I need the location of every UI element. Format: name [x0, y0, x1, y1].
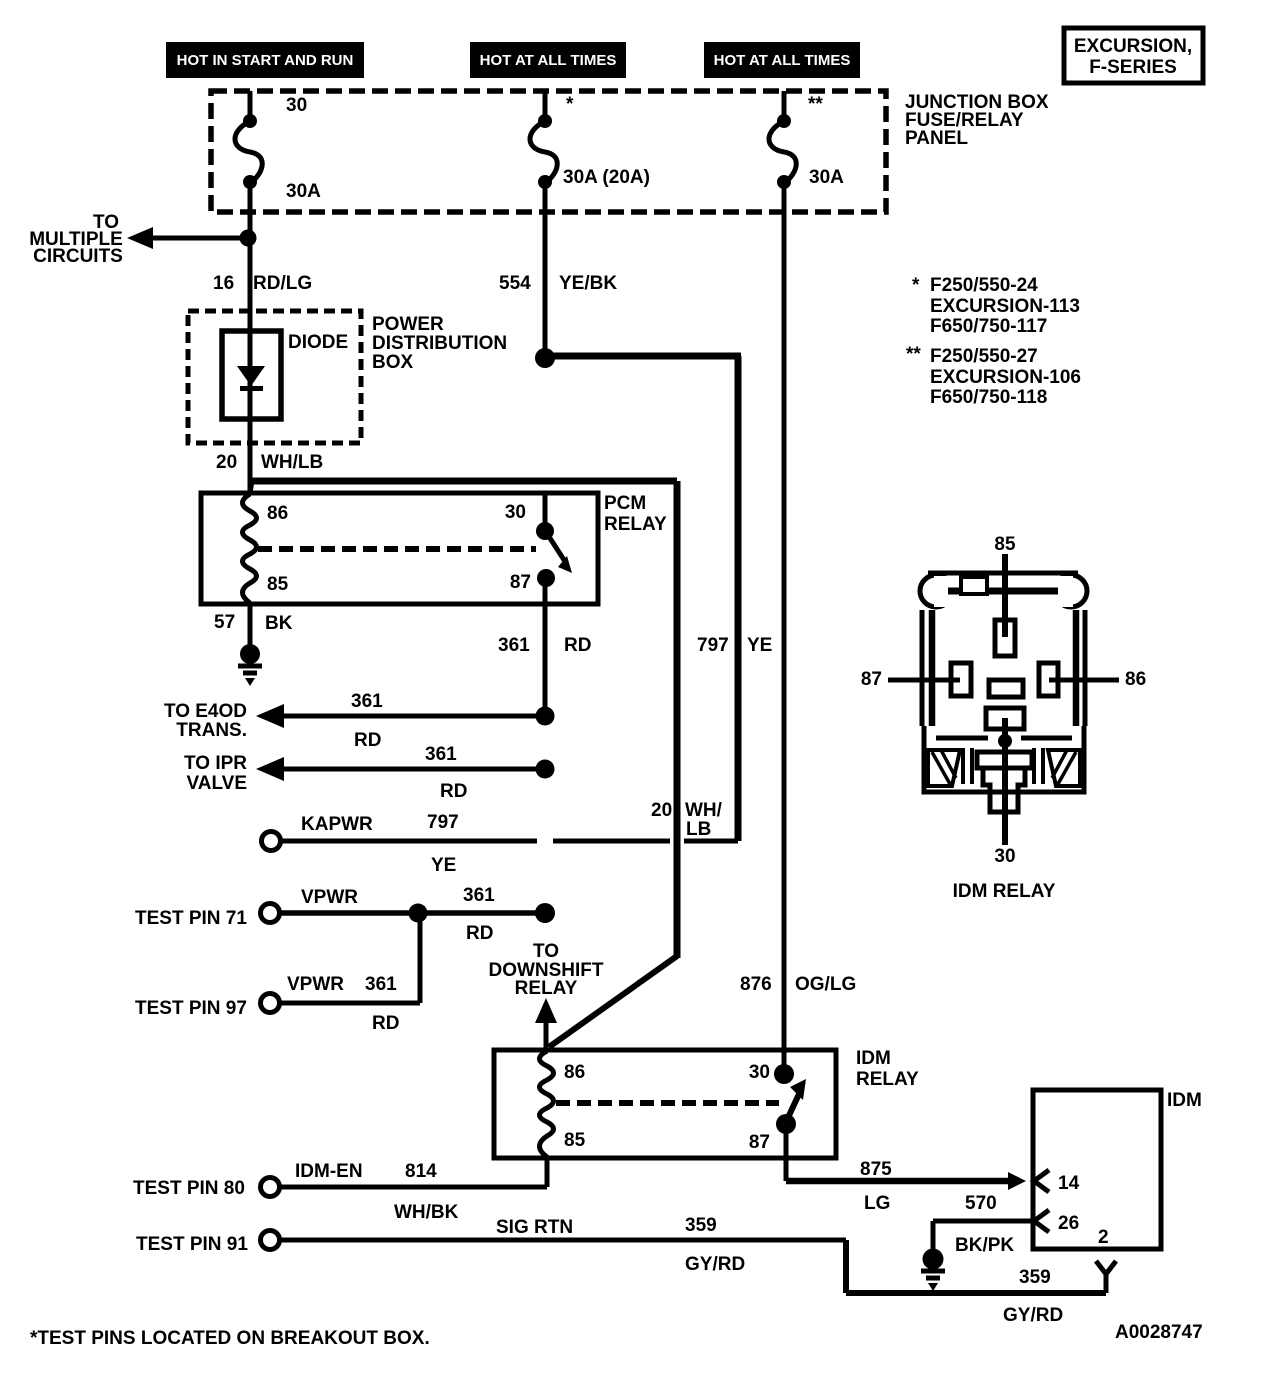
svg-text:361: 361 [365, 974, 397, 995]
svg-text:30A (20A): 30A (20A) [563, 167, 650, 188]
svg-text:361: 361 [463, 885, 495, 906]
svg-text:YE/BK: YE/BK [559, 273, 617, 294]
svg-text:BK/PK: BK/PK [955, 1235, 1014, 1256]
svg-text:HOT AT ALL TIMES: HOT AT ALL TIMES [480, 52, 617, 69]
svg-text:IDM: IDM [1167, 1090, 1202, 1111]
svg-text:87: 87 [510, 572, 531, 593]
svg-text:F250/550-27: F250/550-27 [930, 346, 1038, 367]
svg-text:*TEST PINS LOCATED ON BREAKOUT: *TEST PINS LOCATED ON BREAKOUT BOX. [30, 1328, 430, 1349]
svg-text:TEST PIN 91: TEST PIN 91 [136, 1234, 248, 1255]
svg-text:GY/RD: GY/RD [685, 1254, 745, 1275]
svg-text:BK: BK [265, 613, 293, 634]
svg-text:RELAY: RELAY [856, 1069, 919, 1090]
svg-text:26: 26 [1058, 1213, 1079, 1234]
svg-text:RD: RD [372, 1013, 399, 1034]
svg-text:LB: LB [686, 819, 711, 840]
svg-text:875: 875 [860, 1159, 892, 1180]
svg-text:TEST PIN 71: TEST PIN 71 [135, 908, 247, 929]
svg-text:GY/RD: GY/RD [1003, 1305, 1063, 1326]
svg-text:EXCURSION,: EXCURSION, [1074, 36, 1192, 57]
svg-text:86: 86 [267, 503, 288, 524]
svg-text:LG: LG [864, 1193, 890, 1214]
svg-text:570: 570 [965, 1193, 997, 1214]
svg-text:PANEL: PANEL [905, 128, 968, 149]
svg-text:HOT AT ALL TIMES: HOT AT ALL TIMES [714, 52, 851, 69]
svg-text:57: 57 [214, 612, 235, 633]
svg-text:359: 359 [1019, 1267, 1051, 1288]
svg-text:797: 797 [697, 635, 729, 656]
svg-text:361: 361 [425, 744, 457, 765]
svg-text:*: * [566, 94, 574, 115]
svg-text:KAPWR: KAPWR [301, 814, 373, 835]
svg-text:RD: RD [354, 730, 381, 751]
svg-text:85: 85 [267, 574, 289, 595]
svg-text:IDM RELAY: IDM RELAY [953, 881, 1056, 902]
svg-text:**: ** [808, 94, 823, 115]
svg-text:20: 20 [216, 452, 237, 473]
svg-text:YE: YE [747, 635, 772, 656]
svg-text:85: 85 [564, 1130, 586, 1151]
svg-text:554: 554 [499, 273, 531, 294]
svg-text:A0028747: A0028747 [1115, 1322, 1203, 1343]
svg-text:30: 30 [286, 95, 307, 116]
svg-text:SIG RTN: SIG RTN [496, 1217, 573, 1238]
svg-text:HOT IN START AND RUN: HOT IN START AND RUN [177, 52, 354, 69]
svg-text:2: 2 [1098, 1227, 1109, 1248]
svg-text:30A: 30A [809, 167, 844, 188]
svg-text:87: 87 [749, 1132, 770, 1153]
svg-text:30A: 30A [286, 181, 321, 202]
svg-text:IDM-EN: IDM-EN [295, 1161, 363, 1182]
svg-text:RD: RD [440, 781, 467, 802]
svg-text:TEST PIN 97: TEST PIN 97 [135, 998, 247, 1019]
svg-text:359: 359 [685, 1215, 717, 1236]
svg-text:IDM: IDM [856, 1048, 891, 1069]
svg-text:14: 14 [1058, 1173, 1080, 1194]
svg-text:WH/: WH/ [685, 800, 723, 821]
svg-text:POWER: POWER [372, 314, 444, 335]
svg-text:WH/BK: WH/BK [394, 1202, 459, 1223]
svg-text:30: 30 [994, 846, 1015, 867]
svg-text:30: 30 [749, 1062, 770, 1083]
svg-text:EXCURSION-113: EXCURSION-113 [930, 296, 1080, 317]
svg-text:361: 361 [498, 635, 530, 656]
svg-text:PCM: PCM [604, 493, 646, 514]
svg-text:797: 797 [427, 812, 459, 833]
svg-text:RELAY: RELAY [515, 978, 578, 999]
svg-text:CIRCUITS: CIRCUITS [33, 246, 123, 267]
svg-text:EXCURSION-106: EXCURSION-106 [930, 367, 1081, 388]
svg-text:814: 814 [405, 1161, 437, 1182]
svg-text:**: ** [906, 344, 921, 365]
svg-text:*: * [912, 275, 920, 296]
svg-text:85: 85 [994, 534, 1016, 555]
svg-text:RD/LG: RD/LG [253, 273, 312, 294]
svg-text:TRANS.: TRANS. [176, 720, 247, 741]
svg-text:30: 30 [505, 502, 526, 523]
svg-text:WH/LB: WH/LB [261, 452, 323, 473]
svg-text:F650/750-117: F650/750-117 [930, 316, 1047, 337]
svg-text:16: 16 [213, 273, 234, 294]
svg-text:DISTRIBUTION: DISTRIBUTION [372, 333, 507, 354]
svg-text:361: 361 [351, 691, 383, 712]
svg-text:RELAY: RELAY [604, 514, 667, 535]
svg-text:RD: RD [564, 635, 591, 656]
svg-text:F250/550-24: F250/550-24 [930, 275, 1038, 296]
svg-text:86: 86 [1125, 669, 1146, 690]
svg-text:876: 876 [740, 974, 772, 995]
svg-text:VALVE: VALVE [186, 773, 247, 794]
svg-text:20: 20 [651, 800, 672, 821]
svg-text:OG/LG: OG/LG [795, 974, 856, 995]
svg-text:VPWR: VPWR [301, 887, 358, 908]
svg-text:VPWR: VPWR [287, 974, 344, 995]
svg-text:YE: YE [431, 855, 456, 876]
svg-text:87: 87 [861, 669, 882, 690]
svg-text:TEST PIN 80: TEST PIN 80 [133, 1178, 245, 1199]
svg-text:TO: TO [533, 941, 559, 962]
svg-text:DIODE: DIODE [288, 332, 348, 353]
svg-text:RD: RD [466, 923, 493, 944]
svg-text:BOX: BOX [372, 352, 414, 373]
svg-text:TO IPR: TO IPR [184, 753, 247, 774]
svg-text:F650/750-118: F650/750-118 [930, 387, 1047, 408]
svg-text:86: 86 [564, 1062, 585, 1083]
svg-text:TO E4OD: TO E4OD [164, 701, 247, 722]
svg-text:F-SERIES: F-SERIES [1089, 57, 1177, 78]
